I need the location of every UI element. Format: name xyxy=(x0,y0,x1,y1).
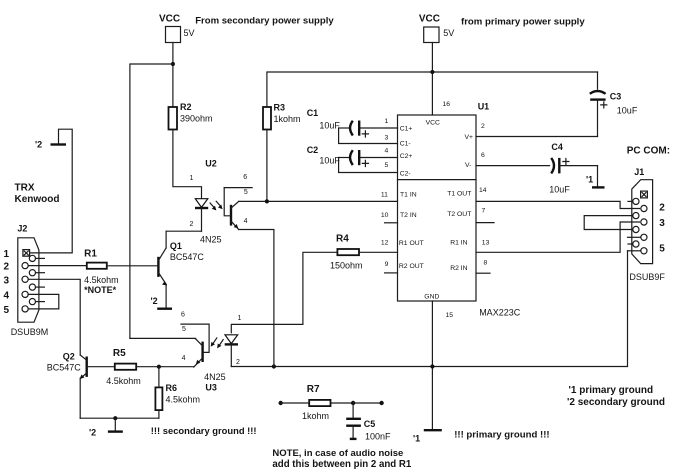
svg-text:R4: R4 xyxy=(336,234,349,245)
svg-text:'2 secondary ground: '2 secondary ground xyxy=(567,397,665,408)
svg-text:1kohm: 1kohm xyxy=(274,114,301,124)
legend ground note xyxy=(567,385,665,408)
ground '1 primary at bottom xyxy=(413,430,442,443)
svg-text:C1: C1 xyxy=(307,108,319,118)
resistor R1 xyxy=(84,248,119,294)
svg-text:16: 16 xyxy=(443,101,451,108)
svg-text:Q2: Q2 xyxy=(63,351,75,361)
svg-text:VCC: VCC xyxy=(159,14,180,25)
wire U2 LED cathode to Q1 collector xyxy=(166,230,201,232)
svg-text:V-: V- xyxy=(465,162,471,169)
svg-text:4.5kohm: 4.5kohm xyxy=(166,395,201,405)
wire T1IN pin11 long xyxy=(239,200,398,202)
wire R1IN pin13 to J1 xyxy=(476,222,640,252)
svg-text:VCC: VCC xyxy=(419,14,440,25)
transistor Q1 BC547C xyxy=(158,231,204,308)
svg-text:TRX: TRX xyxy=(15,182,35,193)
svg-text:R2 OUT: R2 OUT xyxy=(399,263,424,270)
op-amp U1 MAX223C chip body xyxy=(398,102,521,318)
ground '1 at C4 xyxy=(586,166,605,188)
node junction U2 emitter / ground rail xyxy=(272,364,276,368)
svg-text:4N25: 4N25 xyxy=(200,235,222,245)
wire R4 left down to U3 pin1 xyxy=(231,252,337,332)
svg-text:C4: C4 xyxy=(551,142,563,152)
wire GND pin15 down xyxy=(431,301,433,430)
wire R1 to Q1 base xyxy=(107,265,159,267)
node junction GND / ground rail xyxy=(430,364,434,368)
svg-text:!!! primary ground !!!: !!! primary ground !!! xyxy=(454,430,549,441)
J2 pin number labels xyxy=(4,249,10,316)
U1 pin number labels xyxy=(381,101,490,319)
svg-text:13: 13 xyxy=(482,240,490,247)
svg-text:3: 3 xyxy=(4,275,10,286)
VCC secondary supply symbol xyxy=(159,14,195,43)
svg-text:5V: 5V xyxy=(443,28,454,38)
svg-text:*NOTE*: *NOTE* xyxy=(84,285,117,295)
svg-text:10uF: 10uF xyxy=(319,156,340,166)
node junction secondary ground xyxy=(113,416,117,420)
svg-text:2: 2 xyxy=(4,262,10,273)
transistor Q2 BC547C xyxy=(47,351,87,418)
svg-text:C5: C5 xyxy=(364,419,376,429)
svg-text:!!! secondary ground !!!: !!! secondary ground !!! xyxy=(151,425,257,436)
wire T1OUT pin14 to J1 xyxy=(476,201,640,208)
svg-text:U3: U3 xyxy=(205,383,217,393)
J2 left column pin circles xyxy=(22,263,28,313)
U1 internal labels xyxy=(399,119,473,300)
svg-text:'1: '1 xyxy=(586,175,593,185)
svg-text:2: 2 xyxy=(236,359,240,366)
svg-text:R2: R2 xyxy=(180,102,192,112)
svg-text:VCC: VCC xyxy=(426,119,440,126)
secondary ground rail xyxy=(80,417,159,419)
svg-text:T2 IN: T2 IN xyxy=(400,212,417,219)
optocoupler U3 4N25 phototransistor (mirrored) xyxy=(130,312,226,393)
wire R4 right to pin12 xyxy=(359,251,398,253)
svg-text:'2: '2 xyxy=(151,296,158,306)
J1 pin 1 square xyxy=(641,191,648,198)
J2 pin 1 square xyxy=(23,250,30,257)
svg-text:C2+: C2+ xyxy=(400,153,413,160)
resistor R5 xyxy=(106,348,141,386)
svg-text:Q1: Q1 xyxy=(170,241,182,251)
resistor R2 xyxy=(169,102,213,130)
svg-text:150ohm: 150ohm xyxy=(330,260,363,270)
capacitor C1 with loop to pins 1,3 xyxy=(307,108,398,143)
svg-text:add this between pin 2 and R1: add this between pin 2 and R1 xyxy=(272,459,411,470)
svg-text:V+: V+ xyxy=(465,134,474,141)
resistor R6 xyxy=(155,367,200,419)
wire J1 pin5 stub to ground rail xyxy=(628,250,641,252)
wire V- pin6 to C4 xyxy=(476,165,550,167)
svg-text:R2 IN: R2 IN xyxy=(450,265,467,272)
svg-text:3: 3 xyxy=(659,218,665,229)
svg-text:12: 12 xyxy=(381,240,389,247)
svg-text:BC547C: BC547C xyxy=(47,363,82,373)
svg-text:4.5kohm: 4.5kohm xyxy=(84,275,119,285)
svg-text:6: 6 xyxy=(181,312,185,319)
wire R5 to U3 emitter xyxy=(136,366,194,368)
svg-text:from primary power supply: from primary power supply xyxy=(461,17,585,28)
svg-text:C1+: C1+ xyxy=(400,126,413,133)
svg-text:4N25: 4N25 xyxy=(204,372,226,382)
wire J2 pin1 to secondary ground '2 xyxy=(30,129,73,253)
connector J1 DSUB9F body xyxy=(627,145,670,282)
svg-text:Kenwood: Kenwood xyxy=(15,194,60,205)
svg-text:5: 5 xyxy=(182,326,186,333)
svg-text:MAX223C: MAX223C xyxy=(479,308,521,318)
wire T2IN pin10 stub xyxy=(385,222,398,224)
ground '2 top left xyxy=(35,140,66,150)
wire R2 bottom to U2 pin1 xyxy=(173,130,202,199)
wire T2OUT pin7 stub xyxy=(476,222,494,224)
svg-text:J1: J1 xyxy=(634,167,644,177)
capacitor C5 xyxy=(346,403,391,441)
J1 right column pin circles xyxy=(641,205,647,254)
svg-text:'1 primary ground: '1 primary ground xyxy=(569,385,654,396)
svg-text:2: 2 xyxy=(190,221,194,228)
wire R3 bottom to T1IN node xyxy=(266,130,268,202)
svg-text:1: 1 xyxy=(238,315,242,322)
optocoupler U2 4N25 LED xyxy=(190,159,222,245)
svg-text:C2: C2 xyxy=(307,145,319,155)
wire J2 pin2 to R1 xyxy=(28,265,87,267)
svg-text:4.5kohm: 4.5kohm xyxy=(106,376,141,386)
svg-text:T2 OUT: T2 OUT xyxy=(447,211,471,218)
wire VCC2 down to U1 pin 16 xyxy=(431,43,433,116)
resistor R7 with dots xyxy=(279,384,384,421)
svg-text:R1 OUT: R1 OUT xyxy=(399,240,424,247)
resistor R4 xyxy=(330,234,363,271)
connector J2 DSUB9M body xyxy=(11,224,49,337)
svg-text:4: 4 xyxy=(385,148,389,155)
svg-text:4: 4 xyxy=(244,218,248,225)
svg-text:C1-: C1- xyxy=(400,141,411,148)
svg-text:R1 IN: R1 IN xyxy=(450,239,467,246)
wire Q2 base to R5 xyxy=(87,366,115,368)
svg-text:5: 5 xyxy=(385,162,389,169)
svg-text:10uF: 10uF xyxy=(617,105,638,115)
optocoupler U3 LED xyxy=(225,315,242,367)
svg-text:C3: C3 xyxy=(610,91,622,101)
svg-text:BC547C: BC547C xyxy=(170,252,205,262)
capacitor C2 with loop to pins 4,5 xyxy=(307,145,398,172)
svg-text:10uF: 10uF xyxy=(319,120,340,130)
wire R3 top to primary VCC rail xyxy=(267,72,598,107)
svg-text:15: 15 xyxy=(446,312,454,319)
svg-text:R3: R3 xyxy=(274,103,286,113)
ground '2 at Q1 emitter xyxy=(151,296,173,309)
J1 pin number labels xyxy=(659,203,665,255)
wire jumper J2 pins 4-5 xyxy=(28,294,59,309)
wire J1 pin4 stub xyxy=(628,236,641,238)
J1 left column pin circles xyxy=(628,198,639,247)
svg-text:U2: U2 xyxy=(205,159,217,169)
labels TRX Kenwood xyxy=(15,182,60,205)
optocoupler U2 phototransistor xyxy=(224,174,274,367)
wire R2IN pin8 stub xyxy=(476,272,490,274)
wire R2OUT pin9 stub xyxy=(385,272,398,274)
svg-text:PC COM:: PC COM: xyxy=(627,145,670,156)
svg-text:R7: R7 xyxy=(307,384,320,395)
VCC primary supply symbol xyxy=(419,14,454,43)
svg-text:9: 9 xyxy=(385,261,389,268)
svg-text:4: 4 xyxy=(4,290,10,301)
J2 right column pin circles with stubs xyxy=(29,255,44,304)
svg-text:DSUB9F: DSUB9F xyxy=(629,272,665,282)
wire V+ pin2 to C3 xyxy=(476,136,598,138)
svg-text:8: 8 xyxy=(484,260,488,267)
svg-text:J2: J2 xyxy=(17,224,27,234)
svg-text:1kohm: 1kohm xyxy=(302,411,329,421)
svg-text:10: 10 xyxy=(381,212,389,219)
svg-text:390ohm: 390ohm xyxy=(180,114,213,124)
svg-text:R5: R5 xyxy=(113,348,126,359)
svg-text:DSUB9M: DSUB9M xyxy=(11,327,49,337)
svg-text:1: 1 xyxy=(4,249,10,260)
svg-text:2: 2 xyxy=(659,203,665,214)
svg-text:'1: '1 xyxy=(413,434,420,444)
svg-text:From secondary power supply: From secondary power supply xyxy=(195,16,334,27)
svg-text:'2: '2 xyxy=(35,140,42,150)
svg-text:100nF: 100nF xyxy=(365,431,391,441)
node junction R3/T1IN xyxy=(265,199,269,203)
svg-text:2: 2 xyxy=(481,123,485,130)
svg-text:5V: 5V xyxy=(184,28,195,38)
svg-text:6: 6 xyxy=(243,174,247,181)
capacitor C3 xyxy=(590,72,638,137)
svg-text:T1 OUT: T1 OUT xyxy=(447,191,471,198)
optocoupler U2 light arrows xyxy=(210,201,223,210)
svg-text:5: 5 xyxy=(659,243,665,254)
wire junction left to secondary rail xyxy=(130,64,173,338)
svg-text:R6: R6 xyxy=(166,383,178,393)
svg-text:4: 4 xyxy=(182,355,186,362)
svg-text:GND: GND xyxy=(424,293,439,300)
svg-text:T1 IN: T1 IN xyxy=(400,192,417,199)
svg-text:5: 5 xyxy=(244,189,248,196)
node junction VCC1 xyxy=(171,62,175,66)
ground '2 bottom xyxy=(89,418,123,437)
svg-text:1: 1 xyxy=(385,118,389,125)
capacitor C4 xyxy=(549,142,597,195)
node junction R6 top xyxy=(157,365,161,369)
resistor R3 xyxy=(263,103,301,130)
node junction VCC2 on rail xyxy=(430,70,434,74)
svg-text:C2-: C2- xyxy=(400,171,411,178)
primary ground rail xyxy=(231,251,627,367)
svg-text:1: 1 xyxy=(190,175,194,182)
svg-text:'2: '2 xyxy=(89,428,96,438)
svg-text:14: 14 xyxy=(479,187,487,194)
svg-text:10uF: 10uF xyxy=(549,185,570,195)
wire VCC1 box down to junction xyxy=(172,43,174,108)
svg-text:11: 11 xyxy=(381,191,388,198)
svg-text:R1: R1 xyxy=(84,248,97,259)
wire jumper J1 pins 7-8 xyxy=(584,216,632,230)
svg-text:NOTE, in case of audio noise: NOTE, in case of audio noise xyxy=(272,448,403,459)
svg-text:6: 6 xyxy=(481,152,485,159)
svg-text:3: 3 xyxy=(385,135,389,142)
svg-text:5: 5 xyxy=(4,305,10,316)
svg-text:U1: U1 xyxy=(478,102,490,112)
svg-text:7: 7 xyxy=(482,208,486,215)
wire J2 pin3 to Q2 collector xyxy=(28,279,80,355)
optocoupler U3 light arrows xyxy=(211,338,224,349)
label NOTE lines xyxy=(272,448,411,470)
